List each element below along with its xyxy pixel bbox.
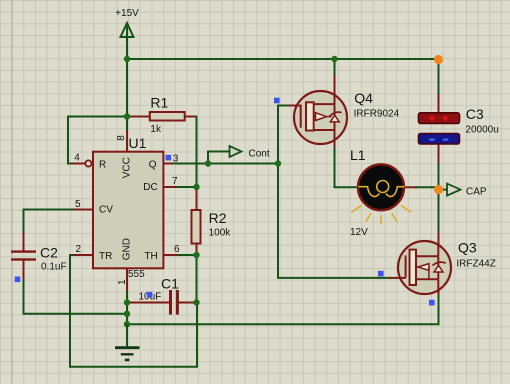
R2 top pin [196,187,198,210]
node C2 ground junction [124,311,130,317]
node gate junction [275,160,281,166]
svg-text:CAP: CAP [466,187,487,198]
capacitor C1 [169,290,179,315]
node C1 left junction [124,299,130,305]
svg-text:L1: L1 [350,147,366,163]
node Cont terminal [230,146,242,157]
wire rail to Q4 source [334,59,336,76]
svg-text:U1: U1 [129,135,147,151]
svg-text:GND: GND [122,238,133,260]
wire top +15V rail [127,58,439,60]
C2 bottom pin [23,261,25,280]
node marker near pin 3 [166,155,172,161]
U1 pin 6 lead [163,254,178,256]
node marker near Q4 gate [274,98,280,104]
capacitor C3 [419,113,460,144]
wire +15V to U1 VCC [126,59,128,131]
R1 right pin [185,117,197,119]
wire lamp to CAP node [416,186,439,188]
node R2/TH junction [193,252,199,258]
node CAP terminal [447,184,461,196]
Q3 gate lead [390,277,405,279]
wire TR bottom loop [70,255,197,367]
lamp L1 [352,164,412,224]
wire pin7 to node [177,186,197,188]
node Cont junction [205,160,211,166]
Q3 drain pin [438,233,440,256]
svg-text:VCC: VCC [122,157,133,178]
ground [115,324,140,360]
node orange terminal top [434,55,443,64]
R2 bottom pin [196,244,198,256]
svg-text:100k: 100k [209,228,232,239]
op-amp U1 555 timer [85,152,163,269]
svg-text:Q3: Q3 [458,240,477,256]
node Q4 source junction [331,56,337,62]
transistor Q3 IRFZ44Z N-MOSFET [398,241,451,294]
wire Q3 source to bottom rail [438,296,440,324]
node orange terminal CAP [434,185,443,194]
node marker near Q3 gate [378,271,384,277]
svg-text:555: 555 [128,269,145,280]
U1 pin 4 lead [72,163,86,165]
svg-text:CV: CV [99,204,113,215]
svg-text:R1: R1 [150,95,168,111]
wire pin6 to node [178,254,197,256]
svg-text:5: 5 [75,199,81,210]
svg-text:7: 7 [172,176,178,187]
wire R1 to DC node [196,117,198,188]
wire gate column up to Q4 [278,106,290,164]
svg-text:R: R [99,159,106,170]
U1 pin 7 lead [163,186,177,188]
R1 left pin [127,116,150,118]
C3 bottom pin [438,144,440,164]
C2 top pin [23,233,25,250]
wire bottom rail [127,323,439,325]
wire gate column down to Q3 [278,164,390,278]
svg-text:IRFZ44Z: IRFZ44Z [456,259,495,270]
U1 pin 5 lead [72,209,93,211]
svg-text:8: 8 [116,135,127,141]
svg-text:3: 3 [173,154,179,165]
svg-text:R2: R2 [209,210,227,226]
wire Q4 drain to lamp [335,148,359,187]
svg-text:4: 4 [74,153,80,164]
svg-text:1: 1 [117,279,128,285]
svg-text:2: 2 [76,244,82,255]
node marker below Q3 [429,300,435,306]
Q3 source pin [438,277,440,296]
wire rail to C3 [438,63,440,95]
power +15V [121,23,134,37]
svg-text:+15V: +15V [115,8,139,19]
wire R2 bottom to C1 node [196,255,198,303]
transistor Q4 IRFR9024 P-MOSFET [294,91,347,144]
U1 pin 3 lead [163,163,174,165]
C3 top pin [438,95,440,113]
svg-text:12V: 12V [350,227,368,238]
svg-text:Q: Q [149,159,157,170]
wire C3 to CAP node [438,164,440,186]
node R1/R2/DC junction [193,184,199,190]
wire pin1 to ground node [126,291,128,324]
U1 pin 2 lead [72,254,93,256]
node marker on 10uF [147,292,153,298]
svg-text:Q4: Q4 [354,90,373,106]
node ground rail junction [124,321,130,327]
svg-text:6: 6 [174,244,180,255]
resistor R2 [192,210,201,244]
C1 right pin [179,302,197,304]
C1 left pin [127,302,169,304]
wire CAP arrow stub [441,189,447,191]
wire +15V stem [126,27,128,59]
wire C2 to ground node [24,280,128,314]
L1 right pin [404,186,416,188]
U1 pin 8 lead [126,131,128,152]
Q4 drain pin [334,130,336,149]
Q4 source pin [334,76,336,101]
svg-text:0.1uF: 0.1uF [41,262,67,273]
U1 pin 1 lead [126,268,128,291]
wire CAP node to Q3 drain [438,193,440,233]
svg-text:Cont: Cont [249,149,270,160]
Q4 gate lead [290,105,302,107]
capacitor C2 [11,250,36,260]
svg-text:C2: C2 [40,245,58,261]
wire Q output [174,163,278,165]
node +15V rail junction [124,56,130,62]
resistor R1 [150,112,185,121]
svg-text:20000u: 20000u [465,125,498,136]
wire reset loop [68,117,127,164]
wire Cont tap [208,152,230,164]
node R1/reset junction [124,113,130,119]
svg-text:C1: C1 [161,276,179,292]
svg-text:TH: TH [144,251,157,262]
node C1 right junction [193,299,199,305]
svg-text:IRFR9024: IRFR9024 [354,109,400,120]
node marker near C2 [15,277,21,283]
svg-text:1k: 1k [150,124,162,135]
wire CV to C2 [24,210,73,234]
svg-text:DC: DC [143,182,157,193]
svg-text:C3: C3 [466,106,484,122]
svg-text:TR: TR [99,251,112,262]
